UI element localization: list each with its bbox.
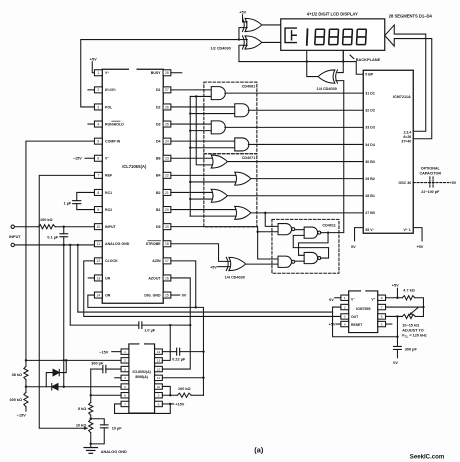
svg-text:ICL8052(A): ICL8052(A) [133,370,151,374]
svg-text:1/2 CD4030: 1/2 CD4030 [210,47,230,51]
svg-text:22~100 pF: 22~100 pF [421,190,440,194]
svg-text:8068(A): 8068(A) [135,375,148,379]
svg-text:B2: B2 [156,191,161,195]
svg-text:−15V: −15V [17,414,26,418]
svg-text:+5V: +5V [416,245,423,249]
svg-text:V⁺: V⁺ [105,71,109,75]
svg-text:0V: 0V [393,361,398,365]
svg-text:RC2: RC2 [105,208,112,212]
svg-text:6: 6 [124,393,126,397]
svg-text:14: 14 [157,350,161,354]
svg-text:BACKPLANE: BACKPLANE [356,57,381,62]
svg-text:5 BP: 5 BP [365,73,374,77]
svg-text:0V: 0V [182,294,187,298]
svg-text:ICM7211A: ICM7211A [393,95,411,99]
svg-text:RUN/HOLD: RUN/HOLD [105,122,124,126]
svg-text:UR: UR [105,276,111,280]
svg-text:23: 23 [165,156,169,160]
svg-text:COMP IN: COMP IN [105,139,121,143]
svg-text:5: 5 [381,322,383,326]
svg-text:+5V: +5V [329,323,336,327]
svg-text:AZOUT: AZOUT [148,276,161,280]
svg-text:ANALOG GND: ANALOG GND [101,450,127,454]
svg-text:28: 28 [165,71,169,75]
svg-text:4+1/2 DIGIT LCD DISPLAY: 4+1/2 DIGIT LCD DISPLAY [307,12,358,17]
svg-text:14: 14 [96,293,100,297]
svg-text:11: 11 [97,242,101,246]
svg-text:V⁺: V⁺ [371,297,375,301]
svg-text:12: 12 [157,367,161,371]
svg-text:AZIN: AZIN [152,259,161,263]
svg-text:13: 13 [96,276,100,280]
svg-text:1: 1 [124,350,126,354]
svg-text:13: 13 [157,359,161,363]
svg-text:POL: POL [105,105,113,109]
svg-text:300 pF: 300 pF [91,361,104,365]
svg-text:B8: B8 [156,157,161,161]
svg-text:8: 8 [97,191,99,195]
svg-text:5: 5 [124,385,126,389]
svg-text:1/4 CD4030: 1/4 CD4030 [317,87,337,91]
svg-text:D3: D3 [156,122,161,126]
svg-text:D4: D4 [156,139,161,143]
svg-text:6=26: 6=26 [403,135,411,139]
svg-text:21: 21 [165,191,169,195]
svg-text:CD4011: CD4011 [322,223,335,227]
svg-text:2: 2 [124,359,126,363]
svg-text:100 kΩ: 100 kΩ [40,218,53,222]
svg-text:−15V: −15V [99,350,108,354]
svg-text:CLOCK: CLOCK [105,259,118,263]
svg-text:3: 3 [344,315,346,319]
svg-text:4: 4 [97,122,99,126]
svg-text:0V: 0V [329,298,334,302]
svg-text:+15V: +15V [175,403,184,407]
svg-text:16: 16 [165,276,169,280]
svg-text:CD4071: CD4071 [242,156,256,160]
svg-text:SeekIC.com: SeekIC.com [410,453,445,460]
svg-text:37=40: 37=40 [401,140,411,144]
svg-text:−15V: −15V [73,157,82,161]
svg-text:3: 3 [124,367,126,371]
svg-text:BUSY: BUSY [151,71,161,75]
svg-text:7: 7 [381,305,383,309]
svg-text:32 D2: 32 D2 [365,109,375,113]
svg-text:0V: 0V [351,245,356,249]
svg-text:38 kΩ: 38 kΩ [12,373,22,377]
svg-text:10 µF: 10 µF [112,426,122,430]
svg-text:RESET: RESET [351,323,363,327]
svg-text:4: 4 [344,322,346,326]
svg-text:1 µF: 1 µF [64,202,72,206]
svg-text:OR: OR [105,293,111,297]
svg-text:100 kΩ: 100 kΩ [178,387,191,391]
svg-text:300 kΩ: 300 kΩ [10,398,23,402]
svg-text:INPUT: INPUT [105,225,116,229]
svg-text:ADJUST TO: ADJUST TO [402,328,423,332]
svg-text:26: 26 [165,105,169,109]
svg-text:29 B2: 29 B2 [365,177,375,181]
svg-text:34 D4: 34 D4 [365,143,375,147]
svg-text:D1: D1 [156,88,161,92]
svg-text:25: 25 [165,122,169,126]
svg-text:1: 1 [344,296,346,300]
svg-text:5: 5 [97,139,99,143]
svg-text:0.22 µF: 0.22 µF [172,357,186,361]
svg-text:OPTIONAL: OPTIONAL [421,166,441,170]
svg-text:8: 8 [158,402,160,406]
svg-text:RC1: RC1 [105,191,112,195]
svg-text:ICL7106S(A): ICL7106S(A) [122,164,147,169]
svg-text:REF: REF [105,174,113,178]
svg-text:33 D3: 33 D3 [365,126,375,130]
svg-text:10: 10 [96,225,100,229]
svg-text:V⁻: V⁻ [105,157,109,161]
svg-text:6½/3½: 6½/3½ [105,88,116,92]
svg-text:5 kΩ: 5 kΩ [78,407,86,411]
svg-text:2,3,4: 2,3,4 [403,131,411,135]
svg-text:17: 17 [165,259,169,263]
svg-text:(a): (a) [254,445,264,454]
svg-text:STROBE: STROBE [146,242,161,246]
svg-text:19: 19 [165,225,169,229]
svg-text:27: 27 [165,88,169,92]
svg-text:4.7 kΩ: 4.7 kΩ [403,288,415,292]
svg-text:DIG. GND: DIG. GND [144,293,161,297]
svg-text:INPUT: INPUT [9,235,21,239]
svg-text:+5V: +5V [392,283,399,287]
svg-text:10~15 kΩ: 10~15 kΩ [402,323,419,327]
svg-text:3: 3 [97,105,99,109]
svg-text:27 B0: 27 B0 [365,211,375,215]
svg-text:28 B1: 28 B1 [365,194,375,198]
svg-text:+5V: +5V [90,57,97,61]
svg-text:9: 9 [97,208,99,212]
svg-text:2: 2 [344,305,346,309]
svg-text:CAPACITOR: CAPACITOR [419,171,441,175]
svg-text:24: 24 [165,139,169,143]
svg-text:1/4 CD4030: 1/4 CD4030 [225,276,245,280]
svg-text:9: 9 [158,393,160,397]
svg-text:V⁻: V⁻ [351,297,355,301]
svg-text:18: 18 [165,242,169,246]
svg-text:11: 11 [157,376,160,380]
svg-text:31 D1: 31 D1 [365,91,375,95]
svg-text:OUT: OUT [351,315,359,319]
svg-text:CD4081: CD4081 [242,84,256,88]
svg-text:10 kΩ: 10 kΩ [76,424,86,428]
svg-text:7: 7 [97,174,99,178]
svg-text:ANALOG GND: ANALOG GND [105,242,130,246]
svg-text:20: 20 [165,208,169,212]
svg-text:2: 2 [97,88,99,92]
svg-text:4: 4 [124,376,126,380]
svg-text:1.0 µF: 1.0 µF [144,328,156,332]
svg-text:B4: B4 [156,174,161,178]
svg-text:OSC 36: OSC 36 [398,181,411,185]
svg-text:8: 8 [381,296,383,300]
svg-text:15: 15 [165,293,169,297]
svg-text:6: 6 [381,315,383,319]
svg-text:D2: D2 [156,105,161,109]
svg-text:12: 12 [96,259,100,263]
svg-text:1: 1 [97,71,99,75]
svg-text:0.1 µF: 0.1 µF [47,236,59,240]
svg-text:300 pF: 300 pF [405,348,418,352]
svg-text:6: 6 [97,156,99,160]
svg-text:+5V: +5V [210,265,217,269]
svg-text:B1: B1 [156,208,161,212]
svg-text:V⁺ 1: V⁺ 1 [403,228,410,232]
svg-text:7: 7 [124,402,126,406]
svg-text:22: 22 [165,174,169,178]
svg-text:ICM7555: ICM7555 [356,307,371,311]
svg-text:10: 10 [157,385,161,389]
svg-text:30 B3: 30 B3 [365,160,375,164]
svg-text:28 SEGMENTS D1–D4: 28 SEGMENTS D1–D4 [389,14,433,19]
svg-text:+5V: +5V [239,10,246,14]
svg-text:35 V⁻: 35 V⁻ [365,228,374,232]
svg-text:+5V: +5V [450,181,457,185]
svg-text:D5: D5 [156,225,161,229]
